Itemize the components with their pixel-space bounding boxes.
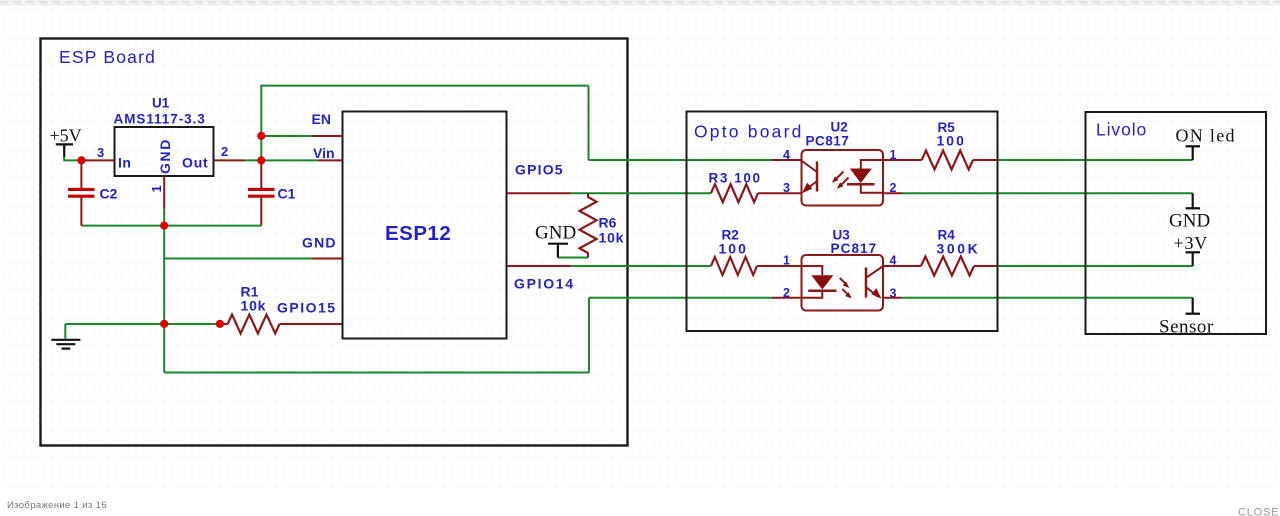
wire Vin xyxy=(245,159,318,161)
svg-text:1: 1 xyxy=(149,185,164,192)
wire ground horizontal xyxy=(65,323,220,325)
wire GND branch to ESP12 xyxy=(164,258,312,260)
LED triangle U2 xyxy=(850,169,872,184)
regulator U1 xyxy=(115,127,214,176)
junction ground/GPIO15 xyxy=(160,320,168,328)
svg-text:4: 4 xyxy=(783,148,790,162)
light arrows xyxy=(836,172,844,180)
earth ground xyxy=(51,340,80,349)
LED side (left) xyxy=(802,266,823,275)
svg-text:Out: Out xyxy=(182,155,209,171)
transistor side (right) xyxy=(865,268,868,298)
wire GPIO5 xyxy=(571,192,711,194)
wire capacitor rail xyxy=(81,225,261,227)
wire U3 pin4 lead xyxy=(883,265,921,267)
wire EN top horizontal xyxy=(260,85,588,87)
wire ground loop up xyxy=(588,298,590,373)
light arrowheads U2 xyxy=(832,176,839,183)
terminal +3V xyxy=(1186,252,1201,266)
LED triangle U3 xyxy=(811,275,833,289)
svg-text:PC817: PC817 xyxy=(831,241,878,256)
junction +5V/C2/In xyxy=(77,156,85,164)
svg-text:R6: R6 xyxy=(599,215,617,231)
svg-text:2: 2 xyxy=(783,286,790,300)
svg-text:GPIO5: GPIO5 xyxy=(515,162,564,178)
svg-text:GND: GND xyxy=(1169,211,1210,232)
svg-text:Livolo: Livolo xyxy=(1096,120,1147,140)
svg-text:GND: GND xyxy=(157,138,173,174)
wire GND livolo net xyxy=(902,192,1193,194)
junction R1 left xyxy=(216,320,224,328)
svg-text:GPIO15: GPIO15 xyxy=(277,300,337,316)
terminal ON led xyxy=(1186,146,1201,160)
wire U1 GND vertical xyxy=(163,209,165,325)
terminal GND livolo xyxy=(1186,193,1201,208)
junction ground rail xyxy=(160,222,168,230)
svg-text:U2: U2 xyxy=(831,120,848,135)
wire U1 GND lead xyxy=(163,176,165,209)
svg-text:ESP12: ESP12 xyxy=(385,222,451,245)
svg-text:CLOSE ×: CLOSE × xyxy=(1238,507,1280,516)
resistor R4 xyxy=(921,257,974,276)
svg-text:C2: C2 xyxy=(100,186,118,202)
svg-text:U1: U1 xyxy=(152,96,170,111)
Opto board box xyxy=(687,112,998,332)
svg-text:+5V: +5V xyxy=(50,126,82,146)
wire ground loop down xyxy=(163,324,165,373)
wire Out lead xyxy=(214,159,246,161)
top noise band xyxy=(0,0,1280,6)
resistor R1 xyxy=(228,315,280,334)
svg-text:10k: 10k xyxy=(241,298,267,314)
wire U2 pin4 lead xyxy=(772,159,802,161)
resistor R3 xyxy=(711,184,758,202)
wire U2 pin1 lead xyxy=(883,159,922,161)
wire U3 pin3 lead xyxy=(883,297,902,299)
ESP Board box xyxy=(41,39,628,446)
emitter arrow U2 xyxy=(802,183,812,194)
svg-text:GPIO14: GPIO14 xyxy=(514,276,575,292)
wire ON led net xyxy=(998,159,1193,161)
capacitor C1 xyxy=(248,160,296,225)
svg-text:2: 2 xyxy=(221,144,228,159)
svg-text:PC817: PC817 xyxy=(806,134,850,149)
svg-text:EN: EN xyxy=(312,111,331,127)
wire +3V net xyxy=(998,265,1193,267)
wire U2 pin2 lead xyxy=(883,192,902,194)
svg-text:R3 100: R3 100 xyxy=(709,171,762,186)
resistor R5 xyxy=(922,151,973,170)
svg-text:AMS1117-3.3: AMS1117-3.3 xyxy=(114,112,206,127)
svg-text:+3V: +3V xyxy=(1174,233,1209,253)
Livolo box xyxy=(1086,112,1267,334)
resistor R2 xyxy=(711,257,757,275)
opto-coupler U2 xyxy=(802,150,884,206)
wire U2 pin4 horizontal xyxy=(589,159,773,161)
svg-text:GND: GND xyxy=(302,235,337,251)
wire EN right vertical xyxy=(588,86,590,160)
LED side (right) xyxy=(861,160,883,169)
svg-text:300K: 300K xyxy=(937,241,981,257)
svg-text:Sensor: Sensor xyxy=(1159,317,1214,338)
svg-text:In: In xyxy=(118,155,131,171)
svg-text:100: 100 xyxy=(719,241,748,257)
wire R6 bottom xyxy=(558,257,588,259)
svg-text:1: 1 xyxy=(783,254,790,268)
svg-text:100: 100 xyxy=(937,133,966,149)
wire EN xyxy=(261,135,312,137)
wire ground loop horizontal xyxy=(164,372,589,374)
wire U3 pin2 lead xyxy=(772,297,802,299)
junction Vin/C1/Out xyxy=(257,156,265,164)
svg-text:3: 3 xyxy=(97,145,104,160)
wire In lead xyxy=(81,159,114,161)
capacitor C2 xyxy=(68,160,118,225)
emitter arrow U3 xyxy=(871,288,881,299)
opto-coupler U3 xyxy=(802,255,884,311)
ground terminal GND (R6) xyxy=(548,244,568,258)
svg-text:ESP Board: ESP Board xyxy=(59,47,156,67)
svg-text:GND: GND xyxy=(535,223,576,244)
terminal Sensor xyxy=(1186,298,1201,314)
light arrowheads U3 xyxy=(843,282,850,289)
resistor R6 xyxy=(580,197,597,253)
svg-text:ON led: ON led xyxy=(1176,126,1236,146)
svg-text:Vin: Vin xyxy=(313,145,335,161)
power flag +5V xyxy=(56,144,73,156)
svg-text:10k: 10k xyxy=(599,230,625,246)
svg-text:Изображение 1 из 16: Изображение 1 из 16 xyxy=(7,500,107,511)
wire +5V elbow xyxy=(64,156,81,160)
wire earth stub xyxy=(64,324,66,339)
wire GPIO14 xyxy=(571,265,711,267)
wire EN/Vin vertical xyxy=(260,86,262,161)
ESP12 module xyxy=(343,112,507,339)
svg-text:3: 3 xyxy=(783,181,790,195)
light arrows xyxy=(840,278,847,285)
junction EN node xyxy=(257,132,265,140)
transistor side (left) xyxy=(816,162,819,192)
wire Sensor net xyxy=(902,297,1193,299)
wire U3 pin2 horizontal xyxy=(589,297,772,299)
svg-text:C1: C1 xyxy=(278,186,296,202)
svg-text:Opto board: Opto board xyxy=(694,122,804,142)
